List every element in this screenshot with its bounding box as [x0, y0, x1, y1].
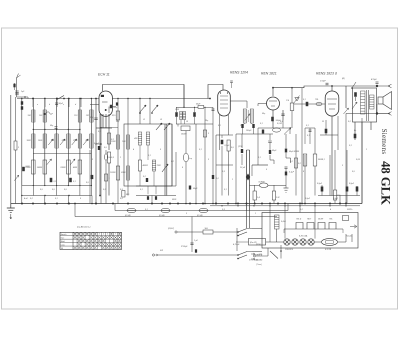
svg-text:(0,2A): (0,2A) [159, 214, 165, 217]
svg-text:TEL 4: TEL 4 [296, 218, 301, 221]
svg-text:1 M: 1 M [286, 100, 289, 102]
svg-text:1: 1 [232, 179, 233, 181]
svg-text:5: 5 [107, 234, 108, 236]
svg-text:0,1: 0,1 [148, 155, 151, 157]
svg-text:GLIMM: GLIMM [259, 181, 265, 183]
svg-text:1: 1 [366, 149, 367, 151]
svg-text:3: 3 [99, 234, 100, 236]
svg-text:0,1: 0,1 [260, 123, 263, 125]
svg-text:a: a [37, 104, 38, 106]
svg-text:Kurz: Kurz [61, 236, 65, 239]
svg-text:Bereich: Bereich [61, 233, 67, 236]
svg-text:2700pF: 2700pF [180, 246, 188, 248]
svg-text:4: 4 [330, 208, 331, 211]
svg-text:0,1: 0,1 [322, 159, 325, 161]
svg-text:TEL: TEL [329, 219, 332, 221]
svg-text:0,1: 0,1 [258, 157, 261, 159]
svg-text:230V~: 230V~ [346, 209, 354, 211]
svg-text:Lang: Lang [61, 244, 65, 246]
svg-text:(23,5V): (23,5V) [168, 228, 175, 230]
svg-text:(0,1A): (0,1A) [125, 214, 131, 217]
svg-text:48 GLK: 48 GLK [379, 161, 393, 205]
svg-text:Mittel: Mittel [61, 240, 66, 243]
svg-text:25p: 25p [115, 121, 119, 123]
svg-text:170pF: 170pF [320, 81, 326, 83]
svg-text:BCHT: BCHT [318, 219, 324, 221]
svg-text:0,1: 0,1 [218, 125, 221, 127]
svg-text:50p: 50p [50, 125, 53, 127]
svg-text:0,1: 0,1 [303, 99, 306, 101]
svg-text:4: 4 [103, 234, 104, 236]
svg-text:( Txxx ): ( Txxx ) [256, 264, 262, 266]
svg-text:1: 1 [109, 178, 110, 180]
svg-text:0,1: 0,1 [73, 181, 76, 183]
svg-text:0,1: 0,1 [199, 149, 202, 151]
svg-text:0,1: 0,1 [98, 131, 101, 133]
svg-text:KW: KW [160, 250, 163, 252]
svg-text:Lsp: Lsp [189, 158, 192, 160]
svg-text:TRL: TRL [315, 99, 319, 101]
svg-text:0,5µF: 0,5µF [317, 183, 323, 185]
svg-text:470pF: 470pF [371, 78, 377, 81]
svg-text:0,1µF: 0,1µF [225, 145, 231, 147]
svg-text:0,1: 0,1 [349, 145, 352, 147]
svg-text:( Tm 4011 ): ( Tm 4011 ) [249, 259, 260, 262]
svg-text:110/220V: 110/220V [285, 249, 294, 251]
svg-text:12 µF: 12 µF [240, 167, 246, 169]
svg-text:50p: 50p [262, 113, 265, 115]
svg-text:RENS 1823 d: RENS 1823 d [316, 72, 337, 76]
svg-text:a = 220: a = 220 [255, 254, 263, 256]
svg-text:(0,1A): (0,1A) [197, 214, 203, 217]
svg-text:7: 7 [115, 234, 116, 236]
svg-text:0,5µF: 0,5µF [333, 198, 339, 200]
svg-text:0,1µF: 0,1µF [289, 172, 295, 174]
svg-text:c: c [63, 104, 64, 106]
svg-text:1: 1 [255, 213, 256, 215]
svg-text:1 M: 1 M [276, 197, 280, 199]
svg-text:(Dm 21): (Dm 21) [250, 242, 257, 244]
svg-text:0,5µF: 0,5µF [305, 198, 311, 200]
svg-text:L1: L1 [143, 119, 145, 121]
svg-text:0,5 M: 0,5 M [277, 123, 282, 125]
svg-text:100p: 100p [113, 107, 117, 109]
svg-text:4: 4 [133, 148, 134, 151]
svg-text:(70V): (70V) [238, 146, 243, 148]
svg-text:W: W [322, 121, 324, 123]
svg-text:0,1: 0,1 [145, 209, 148, 211]
svg-text:0,5µF: 0,5µF [349, 183, 355, 185]
svg-text:(B): (B) [342, 78, 345, 80]
svg-text:(zu Abstimm.): (zu Abstimm.) [77, 226, 91, 229]
svg-text:20p: 20p [204, 120, 208, 122]
svg-text:0,1: 0,1 [224, 189, 227, 191]
svg-text:4,75 µF: 4,75 µF [233, 243, 240, 246]
svg-text:b: b [49, 104, 50, 106]
svg-text:0,1: 0,1 [306, 125, 309, 127]
svg-text:6,3V 0,3A: 6,3V 0,3A [299, 235, 308, 238]
svg-text:0,1: 0,1 [307, 135, 310, 137]
svg-text:100µF: 100µF [246, 130, 252, 132]
svg-text:B 1/TB: B 1/TB [325, 249, 332, 251]
svg-text:0,1: 0,1 [140, 189, 143, 191]
svg-text:1: 1 [120, 157, 121, 159]
svg-text:Siemens: Siemens [380, 129, 388, 155]
svg-text:REN 1821: REN 1821 [261, 72, 277, 76]
svg-text:0,1: 0,1 [54, 181, 57, 183]
svg-text:0,1: 0,1 [55, 198, 58, 200]
svg-text:ECH 11: ECH 11 [98, 73, 110, 77]
svg-text:RENS 1204: RENS 1204 [230, 71, 248, 75]
svg-text:0,4 A: 0,4 A [281, 220, 286, 223]
svg-text:2: 2 [17, 147, 19, 149]
